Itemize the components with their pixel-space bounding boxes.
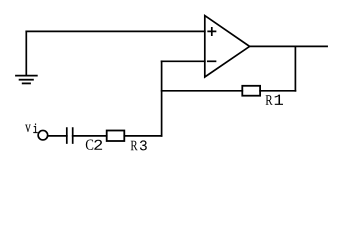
wire: ground to noninverting input — [26, 30, 205, 32]
label Vi — [25, 124, 37, 133]
wire: ground riser — [25, 31, 27, 75]
resistor R1 — [242, 86, 260, 96]
resistor R3 — [107, 131, 125, 142]
wire: output to feedback vertical — [294, 46, 296, 90]
label C2 — [86, 140, 102, 150]
wire: output — [250, 45, 328, 47]
node Vi terminal — [38, 130, 48, 140]
ground — [16, 76, 37, 84]
capacitor C2 — [67, 128, 73, 143]
label R1 — [266, 95, 283, 105]
wire: summing node vertical — [161, 61, 163, 136]
label R3 — [131, 140, 147, 150]
wire: feedback left of R1 — [162, 90, 243, 92]
wire: R3 to summing node — [124, 135, 161, 137]
wire: feedback right of R1 — [260, 90, 295, 92]
op-amp — [205, 16, 250, 77]
wire: C2 to R3 — [73, 135, 107, 137]
wire: Vi to C2 — [48, 135, 67, 137]
wire: inverting input — [162, 60, 205, 62]
